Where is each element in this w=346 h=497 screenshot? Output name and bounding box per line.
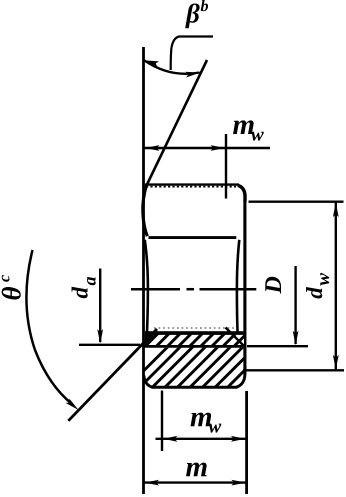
label d_a (72, 287, 88, 299)
d_a arrowhead (97, 329, 103, 344)
d_w top extension line (249, 200, 344, 202)
d_w bottom extension line (243, 369, 344, 371)
d_a extension line (79, 344, 140, 346)
m_w bottom dimension line (156, 438, 247, 440)
nut bottom edge (152, 386, 238, 389)
thread band (145, 331, 255, 347)
label theta sup c (2, 275, 10, 282)
m_w bottom extension line (161, 391, 163, 452)
center line (131, 288, 256, 291)
D extension line (247, 345, 308, 347)
label d_a sub a (87, 277, 96, 285)
label m_w top (233, 120, 254, 134)
m arrow right (231, 480, 246, 486)
nut top edge serration (146, 186, 236, 188)
d_w arrowhead top (333, 203, 339, 218)
theta arc arrowhead (66, 398, 81, 412)
right face line (243, 201, 246, 375)
label m (186, 463, 207, 477)
middle flat left chamfer edge (145, 240, 148, 344)
nut top edge (145, 183, 239, 185)
top right corner curve (238, 185, 245, 201)
D arrowhead (293, 331, 299, 346)
thread minor dia faint dotted line (154, 327, 234, 329)
d_w dimension line (335, 203, 337, 370)
m_w top extension line (225, 134, 227, 199)
m_w top arrow left (145, 145, 160, 151)
beta arc arrowhead left (144, 58, 160, 67)
bottom left corner curve (144, 376, 152, 388)
hole wall line (thread major dia) (144, 345, 245, 348)
label D (265, 277, 281, 294)
m_w bottom arrow right (231, 436, 246, 442)
d_a dimension line (99, 269, 101, 343)
m_w top dimension line (144, 147, 271, 149)
m arrow left (145, 480, 160, 486)
theta angle arc (26, 250, 72, 404)
label beta sup b (201, 0, 208, 11)
label m_w bottom (191, 413, 212, 427)
label d_w sub w (320, 273, 329, 286)
label beta (185, 3, 200, 28)
hex flat boundary line (149, 236, 237, 239)
beta leader line (171, 37, 213, 71)
m dimension line (144, 481, 247, 483)
middle flat right chamfer edge (237, 240, 239, 334)
bottom right corner curve (237, 375, 245, 388)
bearing face construction line (142, 47, 145, 494)
m_w top arrow right (211, 145, 226, 151)
D dimension line (294, 266, 296, 344)
beta angle arc (145, 61, 200, 74)
beta arc arrowhead right (185, 70, 200, 78)
top flat left chamfer arc (143, 185, 147, 237)
d_w arrowhead bottom (333, 355, 339, 370)
section hatch (127, 324, 304, 388)
right extension line (245, 391, 248, 494)
chamfer angle line beta (147, 60, 208, 186)
label d_w (306, 287, 322, 299)
m_w bottom arrow left (163, 436, 178, 442)
countersink cone line right (226, 328, 246, 348)
countersink cone line left (68, 329, 157, 421)
label theta (2, 287, 21, 300)
